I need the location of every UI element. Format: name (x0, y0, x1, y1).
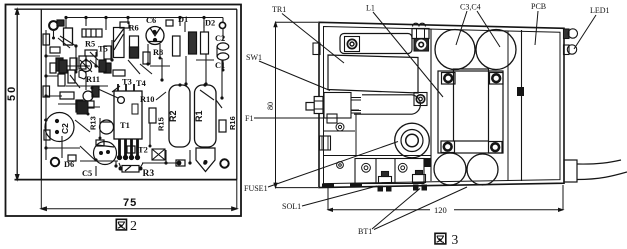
svg-text:C6: C6 (146, 16, 156, 25)
svg-text:R13: R13 (89, 116, 98, 130)
mounting hole bottom-left (51, 158, 59, 166)
resistor bar R2 (169, 85, 190, 147)
svg-text:R10: R10 (140, 95, 154, 104)
svg-text:SOL1: SOL1 (282, 202, 301, 211)
svg-text:SW1: SW1 (246, 53, 262, 62)
svg-text:L1: L1 (366, 4, 375, 13)
svg-text:R1: R1 (194, 110, 204, 122)
caption 图3 (435, 233, 446, 244)
enclosure inner wall (324, 27, 561, 184)
leader F1 (254, 117, 330, 119)
svg-text:D6: D6 (64, 160, 74, 169)
resistor R5 (horizontal) (82, 29, 102, 37)
battery clamp center (379, 172, 392, 184)
svg-text:T3: T3 (122, 78, 132, 87)
diode D1 body (189, 32, 197, 54)
svg-text:R11: R11 (86, 75, 100, 84)
wire top bus (66, 18, 223, 31)
transistor C5 area circle (94, 142, 117, 165)
dim 75 arrowheads (41, 207, 237, 210)
svg-text:BT1: BT1 (358, 227, 372, 236)
switch plate bottom line (323, 130, 355, 132)
PCB right edge (236, 9, 238, 179)
switch SW1 terminals (351, 98, 361, 114)
resistor small top-right (219, 120, 226, 132)
PCB outline top edge with extension (15, 8, 238, 10)
wire mid horizontals (58, 60, 214, 104)
screw at solenoid right (414, 93, 427, 106)
dim line 50 (16, 9, 18, 179)
svg-text:T4: T4 (136, 79, 147, 88)
svg-text:PCB: PCB (531, 2, 546, 11)
screw TL (345, 37, 360, 52)
diode with X (152, 149, 165, 160)
mounting hole bottom-right (220, 159, 228, 167)
junction dots (44, 16, 223, 171)
leader C3 (456, 11, 467, 45)
wire diagonals (60, 36, 214, 100)
extra wires for density (46, 22, 223, 158)
svg-text:D2: D2 (205, 19, 215, 28)
cord wires (577, 160, 627, 180)
svg-text:FUSE1: FUSE1 (244, 184, 268, 193)
PCB edge screw (517, 87, 524, 96)
dim 80 (274, 22, 318, 187)
leader TR1 (282, 14, 344, 64)
leader L1 (373, 12, 443, 97)
wire left column (44, 30, 62, 160)
enclosure outer wall (319, 22, 564, 187)
figure frame (6, 5, 242, 217)
PCB left edge line (521, 30, 523, 181)
fuse F1 body (327, 114, 337, 123)
dim line 75 (41, 180, 237, 209)
cable clamp on top wall (412, 23, 429, 38)
inductor L1 core (454, 69, 489, 141)
dim 50 arrowheads (16, 9, 19, 179)
svg-text:80: 80 (266, 102, 275, 110)
leader BT1 a (372, 189, 420, 230)
svg-text:T2: T2 (138, 146, 148, 155)
svg-text:120: 120 (434, 205, 447, 215)
PCB outline bottom edge with extension (15, 179, 238, 181)
battery BT1 b (467, 154, 498, 185)
capacitor C2 big circle (45, 113, 74, 142)
fuse holder FUSE1 (concentric) (395, 123, 430, 158)
switch SW1 outside lever (306, 97, 323, 114)
svg-text:2: 2 (130, 219, 137, 234)
inductor L1 bracket outer (438, 71, 503, 153)
svg-text:50: 50 (6, 85, 18, 101)
compartment divider vertical (355, 115, 357, 157)
svg-text:C2: C2 (215, 34, 225, 43)
partition wall (430, 29, 432, 181)
leader SW1 (259, 61, 330, 91)
PCB left edge (40, 9, 42, 179)
resistor bar R1 (195, 85, 217, 147)
svg-text:C2: C2 (60, 123, 70, 134)
screw on partition bottom (425, 158, 432, 167)
svg-text:LED1: LED1 (590, 6, 610, 15)
svg-text:R2: R2 (168, 110, 178, 122)
resistor R7 vertical (173, 36, 181, 56)
mount tab left mid (320, 136, 331, 150)
mounting hole top-right (small) (219, 22, 225, 28)
svg-text:R15: R15 (157, 117, 166, 131)
heatsink pad under R1 (196, 148, 215, 172)
extra small parts for density (57, 20, 185, 166)
resistor R13 dark (77, 101, 88, 114)
junction dots extra (52, 37, 225, 148)
svg-text:R16: R16 (228, 116, 237, 130)
capacitor C1 (ellipse) (217, 53, 229, 60)
leader LED1 (574, 15, 596, 49)
component labels left figure (64, 15, 225, 179)
svg-text:3: 3 (452, 232, 459, 247)
svg-text:C3,C4: C3,C4 (460, 3, 481, 12)
svg-text:D1: D1 (178, 15, 188, 24)
capacitor C3 (435, 30, 475, 70)
transformer TR1 top bar (340, 34, 412, 54)
dim 120 (328, 185, 563, 211)
mounting hole top-left (49, 21, 58, 30)
wire bottom area (80, 146, 190, 176)
leader SOL1 (302, 186, 377, 206)
battery box (355, 159, 424, 184)
switch SW1 body inside (324, 93, 359, 119)
svg-text:T5: T5 (98, 45, 108, 54)
battery BT1 a (434, 153, 466, 185)
LED bump b (564, 45, 577, 55)
solenoid cylinder (354, 95, 420, 114)
leader BT1 b (374, 187, 467, 230)
capacitor C6 circle (146, 27, 164, 45)
capacitor C2 small (ellipse) (217, 43, 229, 50)
svg-text:R6: R6 (129, 24, 139, 33)
wire mid verticals (76, 40, 222, 98)
resistor R15 (149, 108, 156, 123)
svg-text:C1: C1 (215, 61, 225, 70)
teardrop transistor near R11 (79, 70, 86, 79)
mount tab top-left (313, 43, 320, 55)
cord strain relief (564, 160, 577, 182)
screw TR (414, 39, 429, 52)
svg-text:R5: R5 (85, 40, 95, 49)
bracket screw corners (441, 73, 503, 154)
leader FUSE1 (268, 142, 398, 188)
component cluster small parts (43, 22, 150, 172)
capacitor C4 (476, 30, 516, 70)
transistor circle left of T1 (100, 120, 114, 134)
wires of PCB (44, 18, 223, 177)
transformer TR1 body (328, 55, 418, 93)
shelf line (324, 155, 431, 157)
bracket right edge line (507, 31, 509, 181)
svg-text:75: 75 (123, 197, 137, 209)
svg-text:F1: F1 (245, 114, 253, 123)
IC T1 (114, 84, 142, 160)
screws in left compartment (336, 123, 407, 172)
svg-text:T1: T1 (120, 121, 130, 130)
battery clamp right (413, 171, 426, 183)
svg-text:R3: R3 (143, 169, 155, 179)
resistor vertical left (64, 28, 73, 45)
LED1 bump a (564, 29, 578, 39)
svg-text:TR1: TR1 (272, 5, 286, 14)
leader PCB (535, 11, 538, 45)
feet under bottom edge (322, 183, 427, 192)
svg-text:C5: C5 (82, 169, 92, 178)
diode D2 body (201, 32, 209, 54)
leader C4 (477, 11, 500, 47)
svg-text:R8: R8 (153, 48, 163, 57)
caption 图2 (116, 219, 126, 230)
